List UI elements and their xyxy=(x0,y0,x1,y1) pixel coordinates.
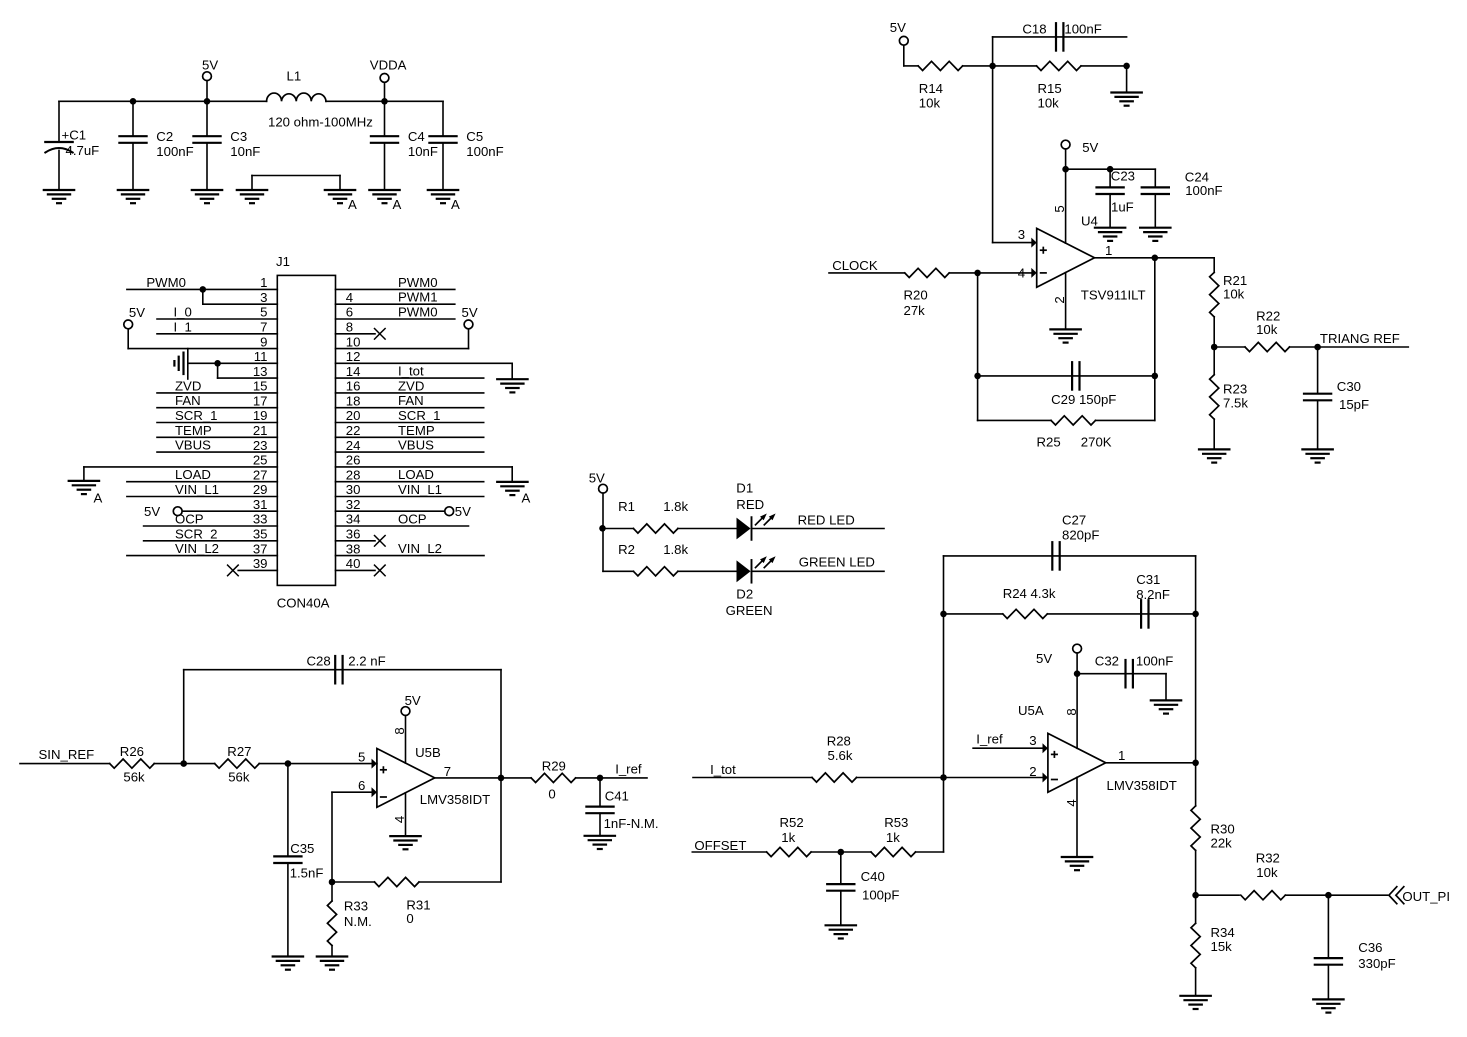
svg-text:SCR_1: SCR_1 xyxy=(175,408,218,423)
svg-text:37: 37 xyxy=(253,541,268,556)
svg-text:C5: C5 xyxy=(466,129,483,144)
svg-text:5V: 5V xyxy=(589,470,605,485)
svg-text:5.6k: 5.6k xyxy=(828,748,853,763)
svg-text:100nF: 100nF xyxy=(1136,654,1173,669)
svg-text:36: 36 xyxy=(346,527,361,542)
svg-text:OCP: OCP xyxy=(398,512,427,527)
svg-text:9: 9 xyxy=(260,334,267,349)
svg-text:R30: R30 xyxy=(1211,822,1235,837)
svg-text:SIN_REF: SIN_REF xyxy=(39,747,95,762)
svg-text:29: 29 xyxy=(253,482,268,497)
svg-text:VDDA: VDDA xyxy=(370,57,407,72)
svg-text:32: 32 xyxy=(346,497,361,512)
svg-text:22: 22 xyxy=(346,423,361,438)
svg-text:C23: C23 xyxy=(1111,169,1135,184)
svg-text:D2: D2 xyxy=(736,586,753,601)
svg-text:19: 19 xyxy=(253,408,268,423)
svg-text:5V: 5V xyxy=(129,305,145,320)
svg-text:PWM0: PWM0 xyxy=(146,275,186,290)
svg-text:100nF: 100nF xyxy=(156,144,193,159)
svg-text:GREEN: GREEN xyxy=(726,603,773,618)
svg-text:3: 3 xyxy=(260,290,267,305)
svg-text:15k: 15k xyxy=(1211,939,1233,954)
svg-text:L1: L1 xyxy=(287,69,302,84)
svg-text:1uF: 1uF xyxy=(1111,199,1134,214)
svg-text:C18: C18 xyxy=(1022,22,1046,37)
svg-text:C3: C3 xyxy=(230,129,247,144)
svg-text:5V: 5V xyxy=(1036,651,1052,666)
svg-text:5: 5 xyxy=(1052,205,1067,212)
svg-text:C36: C36 xyxy=(1358,940,1382,955)
svg-text:7.5k: 7.5k xyxy=(1223,395,1248,410)
svg-text:6: 6 xyxy=(346,305,353,320)
svg-text:C28: C28 xyxy=(306,653,330,668)
svg-text:I_ref: I_ref xyxy=(976,732,1003,747)
svg-text:PWM0: PWM0 xyxy=(398,275,438,290)
svg-text:OCP: OCP xyxy=(175,512,204,527)
svg-text:22k: 22k xyxy=(1211,836,1233,851)
svg-text:R27: R27 xyxy=(227,744,251,759)
svg-text:3: 3 xyxy=(1029,733,1036,748)
svg-text:I_tot: I_tot xyxy=(398,364,424,379)
svg-text:8.2nF: 8.2nF xyxy=(1136,587,1170,602)
svg-text:40: 40 xyxy=(346,556,361,571)
svg-text:4: 4 xyxy=(392,816,407,823)
svg-text:27: 27 xyxy=(253,467,268,482)
svg-text:LMV358IDT: LMV358IDT xyxy=(420,792,490,807)
svg-text:SCR_2: SCR_2 xyxy=(175,526,218,541)
svg-text:38: 38 xyxy=(346,541,361,556)
svg-text:C30: C30 xyxy=(1337,379,1361,394)
svg-text:A: A xyxy=(393,197,402,212)
svg-text:J1: J1 xyxy=(276,254,290,269)
svg-text:R24 4.3k: R24 4.3k xyxy=(1003,586,1056,601)
svg-text:6: 6 xyxy=(358,778,365,793)
svg-text:C32: C32 xyxy=(1095,654,1119,669)
svg-text:VIN_L2: VIN_L2 xyxy=(175,541,219,556)
svg-text:TSV911ILT: TSV911ILT xyxy=(1081,287,1146,302)
svg-text:R22: R22 xyxy=(1256,308,1280,323)
svg-text:35: 35 xyxy=(253,527,268,542)
svg-text:A: A xyxy=(451,197,460,212)
svg-text:LMV358IDT: LMV358IDT xyxy=(1107,778,1177,793)
svg-text:C41: C41 xyxy=(605,788,629,803)
svg-text:R2: R2 xyxy=(618,542,635,557)
svg-text:VIN_L1: VIN_L1 xyxy=(398,482,442,497)
svg-text:0: 0 xyxy=(548,786,555,801)
svg-text:FAN: FAN xyxy=(175,393,201,408)
svg-text:+C1: +C1 xyxy=(62,128,87,143)
svg-text:GREEN LED: GREEN LED xyxy=(799,555,875,570)
svg-text:4: 4 xyxy=(1018,265,1025,280)
svg-text:D1: D1 xyxy=(736,480,753,495)
svg-text:R14: R14 xyxy=(919,81,943,96)
svg-text:U5B: U5B xyxy=(415,745,441,760)
svg-text:25: 25 xyxy=(253,453,268,468)
svg-text:VBUS: VBUS xyxy=(175,438,211,453)
svg-text:C40: C40 xyxy=(861,869,885,884)
svg-text:3: 3 xyxy=(1018,227,1025,242)
svg-text:U4: U4 xyxy=(1081,213,1098,228)
svg-text:56k: 56k xyxy=(123,770,145,785)
svg-text:820pF: 820pF xyxy=(1062,528,1099,543)
svg-text:15pF: 15pF xyxy=(1339,397,1369,412)
svg-text:30: 30 xyxy=(346,482,361,497)
svg-text:RED LED: RED LED xyxy=(798,513,855,528)
svg-text:C27: C27 xyxy=(1062,513,1086,528)
svg-text:VIN_L1: VIN_L1 xyxy=(175,482,219,497)
svg-text:21: 21 xyxy=(253,423,268,438)
svg-text:2: 2 xyxy=(1029,764,1036,779)
svg-text:14: 14 xyxy=(346,364,361,379)
svg-text:C35: C35 xyxy=(290,841,314,856)
svg-text:5: 5 xyxy=(358,749,365,764)
svg-text:7: 7 xyxy=(444,764,451,779)
svg-text:1.8k: 1.8k xyxy=(663,542,688,557)
svg-text:C24: C24 xyxy=(1185,169,1209,184)
svg-text:A: A xyxy=(348,197,357,212)
svg-text:C2: C2 xyxy=(156,129,173,144)
svg-text:R25: R25 xyxy=(1037,435,1061,450)
svg-text:PWM0: PWM0 xyxy=(398,305,438,320)
svg-text:5V: 5V xyxy=(462,305,478,320)
svg-text:100nF: 100nF xyxy=(1064,22,1101,37)
svg-text:10nF: 10nF xyxy=(230,144,260,159)
svg-text:4: 4 xyxy=(1064,799,1079,806)
svg-text:330pF: 330pF xyxy=(1358,956,1395,971)
svg-text:CLOCK: CLOCK xyxy=(832,258,878,273)
svg-text:1: 1 xyxy=(260,275,267,290)
svg-text:10k: 10k xyxy=(1256,322,1278,337)
svg-text:16: 16 xyxy=(346,379,361,394)
svg-text:R32: R32 xyxy=(1256,851,1280,866)
svg-text:2: 2 xyxy=(1052,296,1067,303)
svg-text:100nF: 100nF xyxy=(1185,183,1222,198)
svg-text:1: 1 xyxy=(1105,243,1112,258)
svg-text:U5A: U5A xyxy=(1018,703,1044,718)
svg-text:1: 1 xyxy=(1118,748,1125,763)
svg-text:13: 13 xyxy=(253,364,268,379)
svg-text:8: 8 xyxy=(392,727,407,734)
svg-text:R20: R20 xyxy=(904,288,928,303)
svg-text:A: A xyxy=(94,491,103,506)
svg-text:I_1: I_1 xyxy=(174,319,192,334)
svg-text:R53: R53 xyxy=(884,815,908,830)
svg-text:120 ohm-100MHz: 120 ohm-100MHz xyxy=(268,115,373,130)
svg-text:PWM1: PWM1 xyxy=(398,290,438,305)
svg-text:8: 8 xyxy=(346,320,353,335)
svg-text:RED: RED xyxy=(736,497,764,512)
svg-text:18: 18 xyxy=(346,393,361,408)
svg-text:56k: 56k xyxy=(228,770,250,785)
svg-text:C4: C4 xyxy=(408,129,425,144)
svg-text:100nF: 100nF xyxy=(466,144,503,159)
svg-text:VBUS: VBUS xyxy=(398,438,434,453)
svg-text:5V: 5V xyxy=(1082,140,1098,155)
svg-text:5V: 5V xyxy=(455,504,471,519)
svg-text:5: 5 xyxy=(260,305,267,320)
svg-text:4.7uF: 4.7uF xyxy=(66,143,100,158)
svg-text:12: 12 xyxy=(346,349,361,364)
svg-text:TRIANG REF: TRIANG REF xyxy=(1320,331,1400,346)
svg-text:I_ref: I_ref xyxy=(615,762,642,777)
svg-text:I_0: I_0 xyxy=(174,305,192,320)
svg-text:1nF-N.M.: 1nF-N.M. xyxy=(604,816,659,831)
svg-text:OFFSET: OFFSET xyxy=(694,838,746,853)
svg-text:A: A xyxy=(522,491,531,506)
svg-text:20: 20 xyxy=(346,408,361,423)
svg-text:R1: R1 xyxy=(618,499,635,514)
svg-text:15: 15 xyxy=(253,379,268,394)
svg-text:39: 39 xyxy=(253,556,268,571)
svg-text:LOAD: LOAD xyxy=(398,467,434,482)
svg-text:VIN_L2: VIN_L2 xyxy=(398,541,442,556)
svg-text:10: 10 xyxy=(346,334,361,349)
svg-text:24: 24 xyxy=(346,438,361,453)
svg-text:OUT_PI: OUT_PI xyxy=(1402,889,1450,904)
svg-text:1.5nF: 1.5nF xyxy=(290,866,324,881)
svg-text:10k: 10k xyxy=(1223,287,1245,302)
svg-text:1.8k: 1.8k xyxy=(663,499,688,514)
svg-text:ZVD: ZVD xyxy=(398,378,424,393)
svg-text:SCR_1: SCR_1 xyxy=(398,408,441,423)
svg-text:1k: 1k xyxy=(781,830,795,845)
svg-text:33: 33 xyxy=(253,512,268,527)
svg-text:C29 150pF: C29 150pF xyxy=(1051,392,1116,407)
svg-text:FAN: FAN xyxy=(398,393,424,408)
svg-text:1k: 1k xyxy=(886,830,900,845)
svg-text:R52: R52 xyxy=(780,815,804,830)
svg-text:R28: R28 xyxy=(827,733,851,748)
svg-text:R15: R15 xyxy=(1038,81,1062,96)
svg-text:5V: 5V xyxy=(144,504,160,519)
svg-text:R26: R26 xyxy=(120,744,144,759)
svg-text:2.2 nF: 2.2 nF xyxy=(348,653,385,668)
svg-text:I_tot: I_tot xyxy=(710,762,736,777)
svg-text:R29: R29 xyxy=(542,759,566,774)
svg-text:8: 8 xyxy=(1064,708,1079,715)
svg-text:23: 23 xyxy=(253,438,268,453)
svg-text:7: 7 xyxy=(260,320,267,335)
svg-text:34: 34 xyxy=(346,512,361,527)
svg-text:31: 31 xyxy=(253,497,268,512)
svg-text:C31: C31 xyxy=(1136,572,1160,587)
svg-text:N.M.: N.M. xyxy=(344,914,372,929)
svg-text:R33: R33 xyxy=(344,899,368,914)
svg-text:10nF: 10nF xyxy=(408,144,438,159)
svg-text:10k: 10k xyxy=(919,95,941,110)
svg-text:ZVD: ZVD xyxy=(175,378,201,393)
svg-text:26: 26 xyxy=(346,453,361,468)
svg-text:27k: 27k xyxy=(904,303,926,318)
svg-text:11: 11 xyxy=(254,349,268,364)
svg-text:CON40A: CON40A xyxy=(277,595,330,610)
svg-text:28: 28 xyxy=(346,467,361,482)
svg-text:4: 4 xyxy=(346,290,353,305)
svg-text:17: 17 xyxy=(253,393,268,408)
svg-text:R23: R23 xyxy=(1223,382,1247,397)
svg-text:0: 0 xyxy=(406,911,413,926)
svg-text:10k: 10k xyxy=(1256,865,1278,880)
svg-text:LOAD: LOAD xyxy=(175,467,211,482)
svg-text:5V: 5V xyxy=(405,693,421,708)
svg-text:5V: 5V xyxy=(202,58,218,73)
svg-text:10k: 10k xyxy=(1038,95,1060,110)
svg-text:R34: R34 xyxy=(1211,925,1235,940)
svg-text:TEMP: TEMP xyxy=(175,423,212,438)
svg-text:5V: 5V xyxy=(890,20,906,35)
svg-text:270K: 270K xyxy=(1081,435,1112,450)
svg-text:100pF: 100pF xyxy=(862,888,899,903)
svg-text:TEMP: TEMP xyxy=(398,423,435,438)
